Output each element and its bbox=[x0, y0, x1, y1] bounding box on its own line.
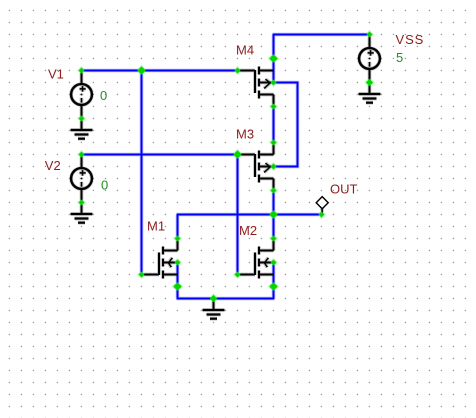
node junction OUT bbox=[269, 210, 277, 218]
node junction ground rail bbox=[210, 295, 217, 302]
ground under V1 bbox=[71, 119, 93, 139]
wire OUT node horizontal bbox=[177, 214, 322, 216]
node M4 bulk pin bbox=[271, 80, 277, 86]
node M3 bulk pin bbox=[271, 164, 277, 170]
wire M4 source rail vertical bbox=[273, 35, 275, 83]
node M1 gate pin bbox=[139, 272, 145, 278]
svg-text:V2: V2 bbox=[45, 158, 61, 173]
wire M3 drain to OUT node bbox=[273, 191, 275, 215]
node M3 drain pin bbox=[271, 188, 277, 194]
wire node A down to M1 gate (x=141) bbox=[141, 71, 143, 275]
wire M2 bulk-source to ground rail bbox=[273, 263, 275, 299]
svg-text:5: 5 bbox=[396, 50, 403, 65]
node M1 bulk pin bbox=[175, 260, 181, 266]
node M2 gate pin bbox=[235, 272, 241, 278]
voltage source VSS bbox=[359, 35, 380, 83]
wire M4 bulk to M3 bulk bbox=[274, 83, 298, 167]
wire OUT to M1 drain bbox=[177, 215, 179, 239]
transistor M3 (PMOS) bbox=[238, 143, 274, 191]
node V2 minus pin bbox=[79, 200, 85, 206]
node M2 drain pin bbox=[271, 236, 277, 242]
soft glow underlay bbox=[71, 32, 381, 319]
port OUT bbox=[316, 197, 328, 214]
transistor M2 (NMOS) bbox=[238, 239, 274, 279]
svg-text:0: 0 bbox=[100, 88, 107, 103]
voltage source V2 bbox=[71, 155, 92, 203]
node M3 source pin bbox=[271, 140, 277, 146]
wire V2 top to M3 gate (y=154) bbox=[82, 154, 238, 156]
svg-text:M2: M2 bbox=[239, 223, 257, 238]
svg-text:M4: M4 bbox=[236, 43, 254, 58]
node junction M1 source bbox=[173, 282, 181, 290]
ground at bottom rail bbox=[203, 299, 225, 319]
node M4 drain pin bbox=[271, 104, 277, 110]
node junction V1/M4-gate branch bbox=[137, 66, 145, 74]
wire M4 drain to M3 source bbox=[273, 107, 275, 143]
svg-text:VSS: VSS bbox=[396, 32, 425, 47]
svg-text:OUT: OUT bbox=[330, 181, 358, 196]
node V2 plus pin bbox=[79, 152, 85, 158]
wire M1 bulk-source to ground rail bbox=[177, 263, 179, 299]
transistor M1 (NMOS) bbox=[142, 239, 178, 279]
svg-text:V1: V1 bbox=[48, 66, 64, 81]
node junction VSS bottom/ground bbox=[366, 79, 373, 86]
node VSS plus pin bbox=[367, 32, 373, 38]
node junction M2 source bbox=[269, 282, 277, 290]
svg-text:M1: M1 bbox=[147, 219, 165, 234]
wire ground rail bbox=[177, 298, 275, 300]
voltage source V1 bbox=[71, 71, 92, 119]
wire supply rail to VSS bbox=[273, 34, 370, 36]
node M1 drain pin bbox=[175, 236, 181, 242]
ground under VSS bbox=[359, 83, 381, 103]
node M4 gate pin bbox=[235, 68, 241, 74]
node junction V2/M3-gate branch bbox=[233, 150, 241, 158]
svg-text:M3: M3 bbox=[236, 127, 254, 142]
wire OUT to M2 drain bbox=[273, 215, 275, 239]
node V1 minus pin bbox=[79, 116, 85, 122]
transistor M4 (PMOS) bbox=[238, 67, 274, 107]
wire V1 top to M4 gate (y=70) bbox=[82, 70, 238, 72]
node V1 plus pin bbox=[79, 68, 85, 74]
svg-text:0: 0 bbox=[101, 178, 108, 193]
node M2 bulk pin bbox=[271, 260, 277, 266]
ground under V2 bbox=[71, 203, 93, 223]
wire node B down to M2 gate (x=237) bbox=[237, 155, 239, 275]
node OUT port pin bbox=[319, 212, 325, 218]
node junction M4 source/supply bbox=[269, 54, 277, 62]
